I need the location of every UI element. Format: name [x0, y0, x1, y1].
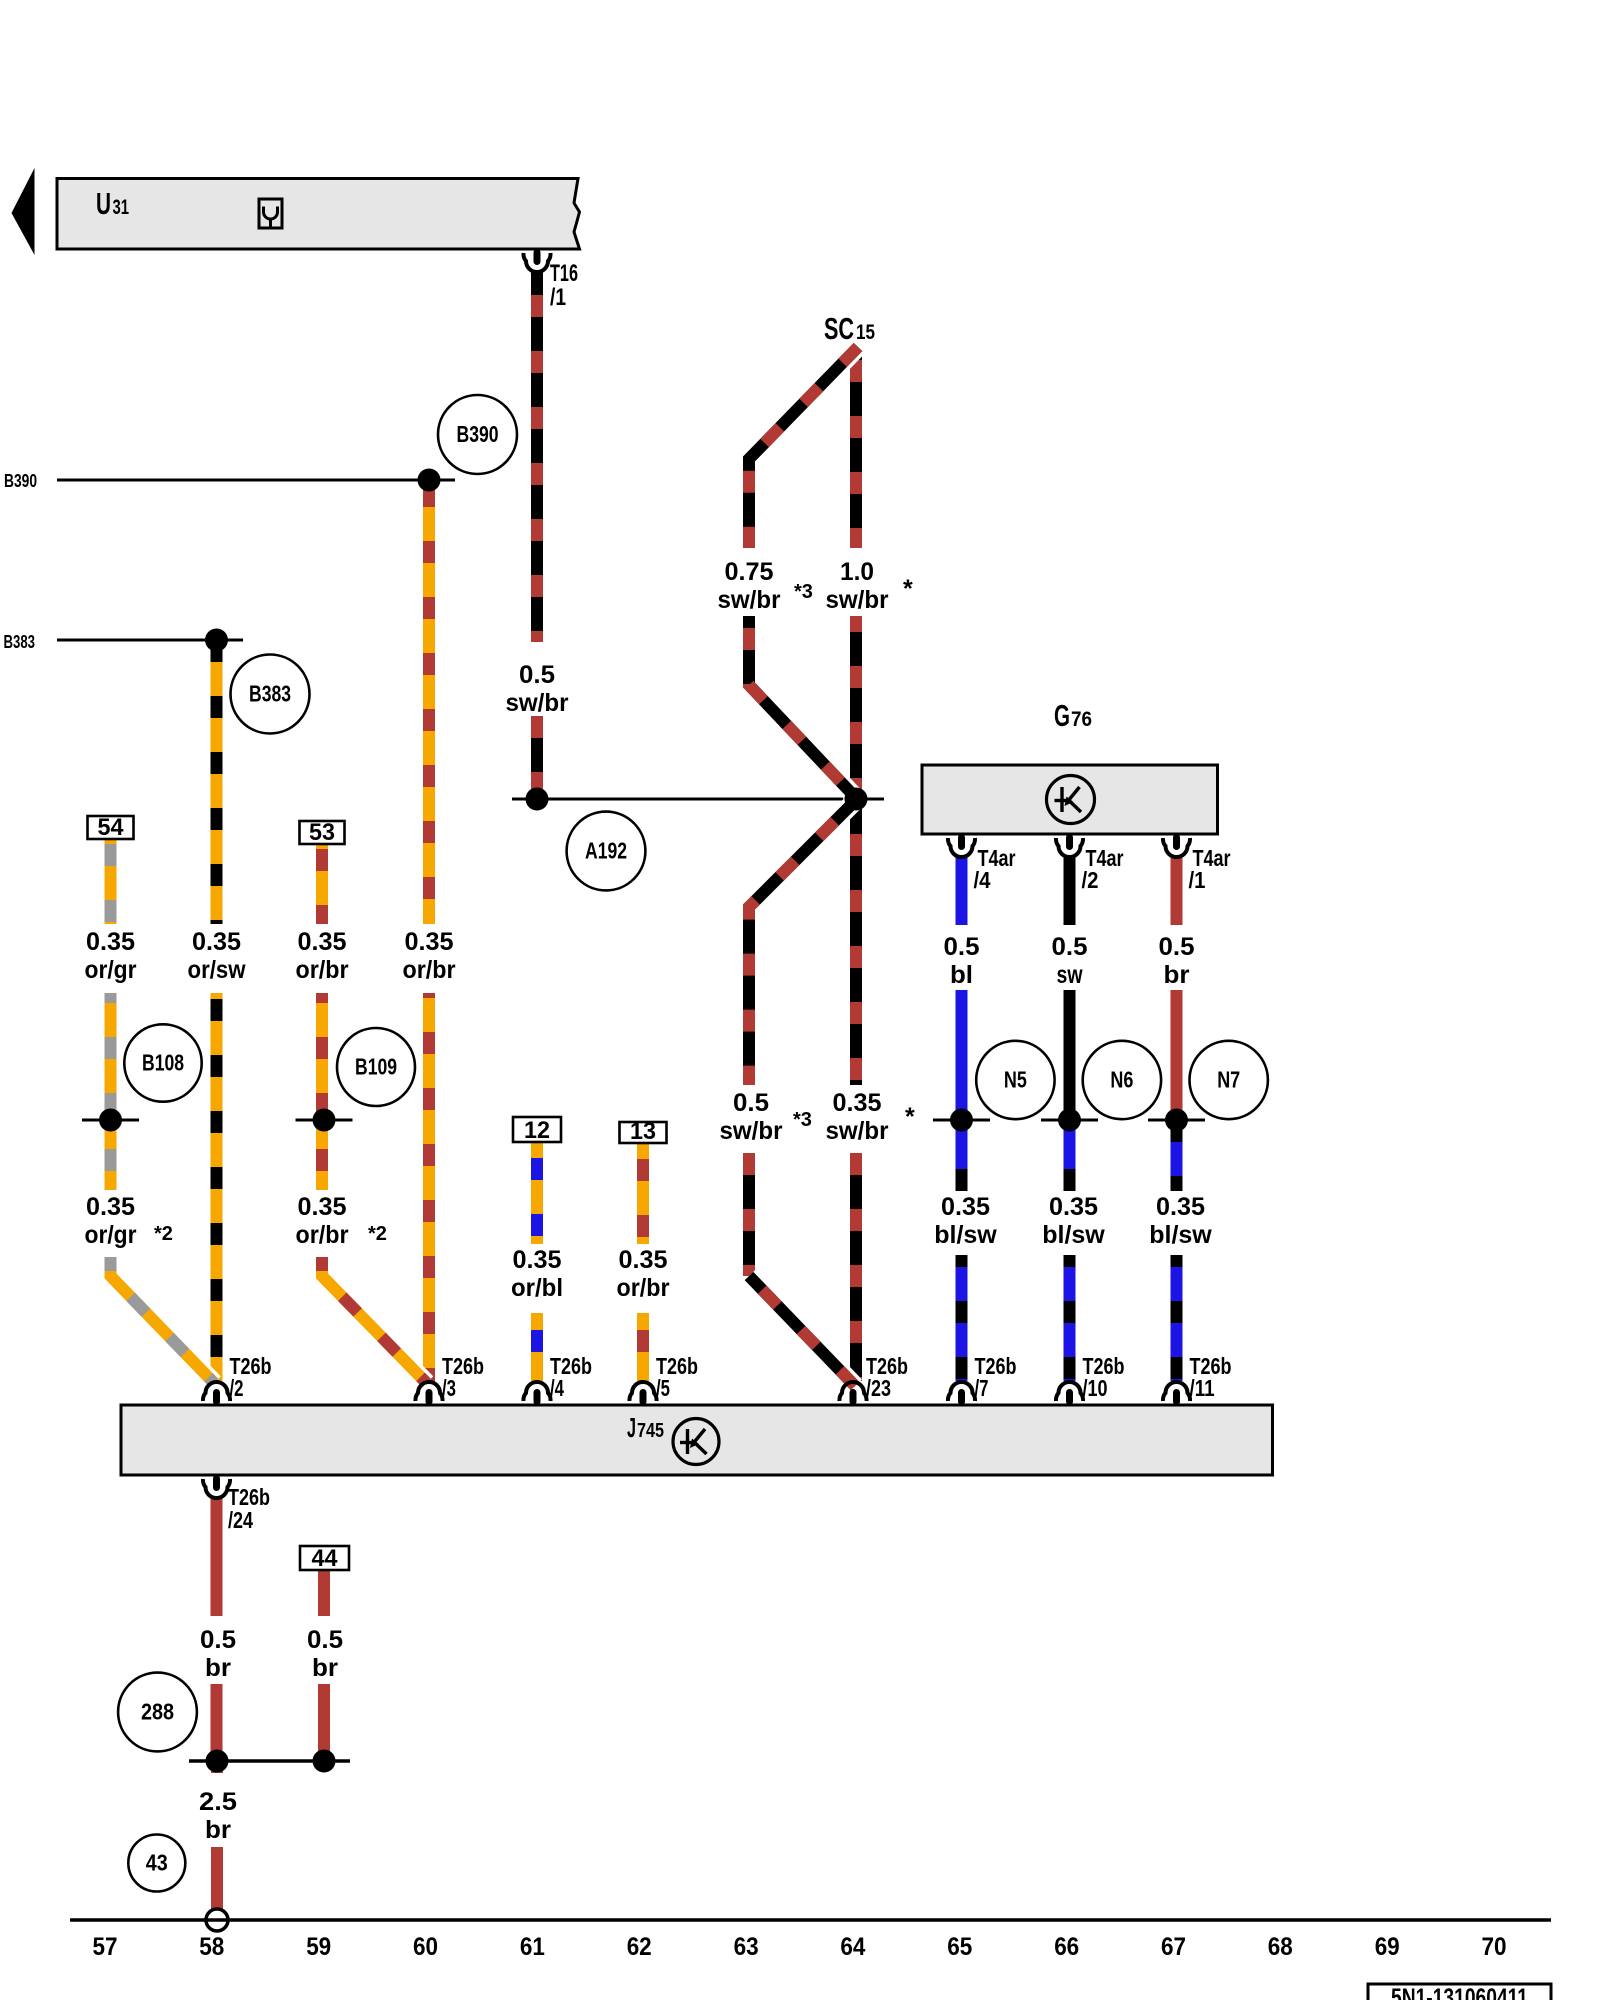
- pin label T26b/11: [1190, 1353, 1232, 1401]
- svg-text:0.5: 0.5: [944, 933, 980, 961]
- node B390 leader line: [57, 479, 455, 482]
- value label 0.75 sw/br: [718, 558, 781, 614]
- junction dot SC15 node: [845, 788, 868, 811]
- wire 0.35 bl/sw below splice N6: [1064, 1120, 1076, 1381]
- ground terminal 43 (open circle): [206, 1909, 228, 1931]
- connector T16/1 at U31: [523, 249, 550, 272]
- svg-text:N7: N7: [1217, 1067, 1240, 1093]
- svg-text:/11: /11: [1190, 1375, 1215, 1401]
- label B390 (left margin): [4, 471, 37, 491]
- value label 2.5 br (ground wire): [199, 1788, 237, 1844]
- svg-text:br: br: [1164, 961, 1190, 989]
- reference circle N7: [1190, 1041, 1268, 1119]
- svg-text:62: 62: [627, 1933, 652, 1961]
- svg-text:0.5: 0.5: [1052, 933, 1088, 961]
- svg-text:or/br: or/br: [617, 1274, 670, 1302]
- svg-text:br: br: [205, 1816, 231, 1844]
- ground bus line 288: [189, 1759, 350, 1763]
- svg-text:or/sw: or/sw: [188, 956, 246, 984]
- svg-text:/2: /2: [230, 1375, 244, 1401]
- svg-text:/4: /4: [974, 867, 991, 893]
- connector T26b/11 at J745: [1163, 1382, 1190, 1405]
- value label 0.5 br (T26b/24 wire): [200, 1626, 236, 1682]
- svg-text:1.0: 1.0: [840, 558, 874, 586]
- wire 0.35 or/gr from terminal 54: [105, 839, 117, 1190]
- svg-text:53: 53: [309, 819, 335, 846]
- wire 0.5 sw/br out of A192 junction: [749, 800, 856, 1085]
- svg-text:bl: bl: [950, 961, 973, 989]
- svg-text:68: 68: [1268, 1933, 1293, 1961]
- svg-text:T16: T16: [550, 260, 578, 287]
- svg-text:B109: B109: [355, 1054, 397, 1080]
- off-page arrow (left): [12, 168, 35, 255]
- svg-text:or/gr: or/gr: [85, 956, 137, 984]
- svg-text:/2: /2: [1082, 867, 1099, 893]
- svg-text:64: 64: [840, 1933, 865, 1961]
- value label 0.35 or/bl (12): [511, 1246, 563, 1302]
- svg-text:0.35: 0.35: [298, 1193, 347, 1221]
- qualifier *3 upper: [794, 581, 813, 603]
- svg-text:0.35: 0.35: [86, 928, 135, 956]
- label B383 (left margin): [4, 632, 36, 652]
- pin label T26b/3: [442, 1353, 484, 1401]
- value label 0.35 sw/br (mid): [826, 1089, 889, 1145]
- wire 0.35 or/br from terminal 53: [316, 844, 328, 1190]
- value label 0.35 or/br *2: [296, 1193, 349, 1249]
- connector icon in U31: [259, 199, 282, 228]
- label J745: [627, 1412, 664, 1443]
- splice B109 dot with tick: [296, 1109, 353, 1132]
- svg-text:288: 288: [141, 1699, 174, 1725]
- svg-text:B108: B108: [142, 1050, 184, 1076]
- terminal box 13: [620, 1118, 667, 1145]
- wire 0.35 sw/br vertical above T26b/23: [743, 1153, 755, 1276]
- label SC15: [824, 311, 875, 346]
- splice N7 dot with tick: [1148, 1109, 1205, 1132]
- connector T26b/23 at J745: [839, 1382, 866, 1405]
- svg-text:or/bl: or/bl: [511, 1274, 563, 1302]
- connector T26b/2 at J745: [203, 1382, 230, 1405]
- svg-text:12: 12: [524, 1117, 550, 1144]
- splice N6 dot with tick: [1041, 1109, 1098, 1132]
- junction dot B390: [418, 469, 441, 492]
- reference circle B383: [231, 655, 310, 734]
- svg-text:57: 57: [93, 1933, 118, 1961]
- pin label T26b/23: [866, 1353, 908, 1401]
- svg-text:54: 54: [98, 814, 125, 841]
- svg-text:0.75: 0.75: [725, 558, 774, 586]
- svg-text:*: *: [903, 575, 913, 603]
- connector T26b/5 at J745: [629, 1382, 656, 1405]
- svg-text:br: br: [312, 1654, 338, 1682]
- wire 0.5 bl from G76 T4ar/4: [956, 856, 968, 1120]
- value label 0.35 bl/sw (N7): [1149, 1193, 1212, 1249]
- wire 0.35 or/gr diagonal to T26b/2: [111, 1257, 215, 1383]
- diagram number box 5N1-131060411: [1368, 1984, 1551, 2000]
- svg-text:76: 76: [1071, 708, 1092, 731]
- svg-text:31: 31: [113, 196, 130, 219]
- svg-text:/4: /4: [550, 1375, 564, 1401]
- qualifier * upper: [903, 575, 913, 603]
- wire 0.5 br from terminal 44: [318, 1570, 330, 1755]
- node B383 leader line: [57, 639, 243, 642]
- wire 0.5 sw from G76 T4ar/2: [1064, 856, 1076, 1120]
- connector T26b/3 at J745: [415, 1382, 442, 1405]
- value label 0.35 or/br (B390): [403, 928, 456, 984]
- svg-text:*: *: [905, 1103, 915, 1131]
- svg-text:44: 44: [312, 1545, 339, 1572]
- connector T26b/4 at J745: [523, 1382, 550, 1405]
- svg-text:sw/br: sw/br: [506, 689, 569, 717]
- svg-text:/24: /24: [228, 1507, 253, 1533]
- svg-text:0.35: 0.35: [1049, 1193, 1098, 1221]
- svg-text:sw/br: sw/br: [826, 1117, 889, 1145]
- svg-text:bl/sw: bl/sw: [934, 1221, 997, 1249]
- svg-text:66: 66: [1054, 1933, 1079, 1961]
- current track numbers 57-70: [93, 1933, 1507, 1961]
- svg-text:N6: N6: [1110, 1067, 1133, 1093]
- svg-text:B390: B390: [4, 471, 37, 491]
- qualifier *3 mid: [793, 1109, 812, 1131]
- svg-text:B383: B383: [249, 681, 291, 707]
- value label 0.5 sw: [1052, 933, 1088, 989]
- node A192 horizontal line: [512, 798, 884, 801]
- svg-text:0.35: 0.35: [941, 1193, 990, 1221]
- qualifier * mid: [905, 1103, 915, 1131]
- svg-text:61: 61: [520, 1933, 545, 1961]
- wire 0.35 bl/sw below splice N7: [1171, 1120, 1183, 1381]
- pin label T26b/2: [230, 1353, 272, 1401]
- component J745 box (control unit cornering lamp): [121, 1405, 1273, 1475]
- svg-text:br: br: [205, 1654, 231, 1682]
- connector T26b/7 at J745: [948, 1382, 975, 1405]
- control unit icon in J745: [673, 1419, 719, 1465]
- reference circle 43: [128, 1835, 185, 1892]
- value label 0.35 bl/sw (N6): [1042, 1193, 1105, 1249]
- svg-text:0.35: 0.35: [513, 1246, 562, 1274]
- value label 0.5 br (44 wire): [307, 1626, 343, 1682]
- wire 0.35 bl/sw below splice N5: [956, 1120, 968, 1381]
- wire 0.35 or/bl from terminal 12: [531, 1142, 543, 1381]
- svg-text:43: 43: [146, 1850, 168, 1876]
- terminal box 44: [300, 1545, 349, 1572]
- svg-text:/23: /23: [866, 1375, 891, 1401]
- wire 0.35 or/br from terminal 13: [637, 1143, 649, 1381]
- ground bus dot left: [206, 1750, 229, 1773]
- svg-text:bl/sw: bl/sw: [1042, 1221, 1105, 1249]
- sensor icon in G76: [1047, 776, 1095, 824]
- svg-text:sw/br: sw/br: [720, 1117, 783, 1145]
- terminal box 54: [88, 814, 134, 841]
- pin label T26b/24: [228, 1484, 270, 1533]
- svg-text:or/br: or/br: [296, 956, 349, 984]
- wire 0.75 sw/br SC15 left branch upper: [749, 347, 858, 548]
- svg-text:SC: SC: [824, 311, 854, 346]
- svg-text:bl/sw: bl/sw: [1149, 1221, 1212, 1249]
- svg-text:745: 745: [637, 1420, 664, 1442]
- value label 0.5 sw/br (T16 wire): [506, 661, 569, 717]
- svg-text:/1: /1: [550, 284, 566, 311]
- value label 0.35 or/br (13): [617, 1246, 670, 1302]
- svg-text:65: 65: [947, 1933, 972, 1961]
- value label 1.0 sw/br: [826, 558, 889, 614]
- reference circle B109: [337, 1028, 415, 1106]
- svg-text:0.35: 0.35: [298, 928, 347, 956]
- svg-text:0.35: 0.35: [833, 1089, 882, 1117]
- wire 1.0 sw/br splice SC15 right branch: [850, 353, 862, 1381]
- svg-text:0.5: 0.5: [200, 1626, 236, 1654]
- wire 0.35 or/sw from B383 junction: [211, 640, 223, 1381]
- svg-text:*3: *3: [794, 581, 813, 603]
- label G76: [1054, 698, 1092, 733]
- qualifier *2 right: [368, 1223, 387, 1245]
- component G76 box (sensor): [922, 765, 1218, 834]
- current track axis line: [70, 1918, 1551, 1922]
- svg-text:0.5: 0.5: [307, 1626, 343, 1654]
- connector T4ar/1 at G76: [1163, 834, 1190, 857]
- pin label T26b/7: [975, 1353, 1017, 1401]
- svg-text:B390: B390: [457, 421, 499, 447]
- svg-text:N5: N5: [1004, 1067, 1027, 1093]
- wire 0.5 br from G76 T4ar/1: [1171, 856, 1183, 1120]
- wire 0.35 or/br from B390 junction: [423, 480, 435, 1383]
- terminal box 53: [300, 819, 345, 846]
- junction dot B383: [205, 629, 228, 652]
- terminal box 12: [513, 1117, 561, 1144]
- wire 0.35 sw/br diagonal to T26b/23: [749, 1276, 855, 1386]
- svg-text:0.5: 0.5: [519, 661, 555, 689]
- svg-text:*2: *2: [368, 1223, 387, 1245]
- ground bus dot right: [313, 1750, 336, 1773]
- svg-text:/3: /3: [442, 1375, 456, 1401]
- svg-text:69: 69: [1375, 1933, 1400, 1961]
- svg-text:*3: *3: [793, 1109, 812, 1131]
- qualifier *2 left: [154, 1223, 173, 1245]
- component U31 box (control unit, torn right edge): [57, 179, 580, 250]
- value label 0.5 bl: [944, 933, 980, 989]
- svg-text:U: U: [96, 186, 111, 221]
- junction dot A192: [526, 788, 549, 811]
- svg-text:/5: /5: [656, 1375, 670, 1401]
- wire 2.5 br to ground 43: [211, 1761, 223, 1909]
- reference circle 288: [118, 1673, 197, 1752]
- svg-text:sw/br: sw/br: [718, 586, 781, 614]
- pin label T26b/4: [550, 1353, 592, 1401]
- svg-text:67: 67: [1161, 1933, 1186, 1961]
- value label 0.35 bl/sw (N5): [934, 1193, 997, 1249]
- svg-text:0.35: 0.35: [619, 1246, 668, 1274]
- reference circle B390: [438, 395, 517, 474]
- reference circle A192: [567, 812, 646, 891]
- value label 0.35 or/br (53): [296, 928, 349, 984]
- svg-text:0.35: 0.35: [192, 928, 241, 956]
- pin label T4ar/2: [1082, 845, 1124, 893]
- pin label T4ar/1: [1189, 845, 1231, 893]
- connector T4ar/4 at G76: [948, 834, 975, 857]
- connector T26b/10 at J745: [1056, 1382, 1083, 1405]
- connector T4ar/2 at G76: [1056, 834, 1083, 857]
- pin label T16/1: [550, 260, 578, 311]
- svg-text:/10: /10: [1083, 1375, 1108, 1401]
- svg-text:or/br: or/br: [296, 1221, 349, 1249]
- pin label T26b/10: [1083, 1353, 1125, 1401]
- svg-text:60: 60: [413, 1933, 438, 1961]
- svg-text:/1: /1: [1189, 867, 1206, 893]
- value label 0.5 br (T4ar/1): [1159, 933, 1195, 989]
- svg-text:59: 59: [306, 1933, 331, 1961]
- svg-text:*2: *2: [154, 1223, 173, 1245]
- svg-text:B383: B383: [4, 632, 36, 652]
- svg-text:0.35: 0.35: [405, 928, 454, 956]
- svg-text:sw: sw: [1057, 961, 1083, 989]
- svg-text:or/br: or/br: [403, 956, 456, 984]
- svg-text:or/gr: or/gr: [85, 1221, 137, 1249]
- wire 0.35 or/br diagonal to T26b/3: [322, 1257, 427, 1383]
- svg-text:2.5: 2.5: [199, 1788, 237, 1816]
- wire 0.5 br from J745 T26b/24: [211, 1497, 223, 1755]
- pin label T4ar/4: [974, 845, 1016, 893]
- svg-text:5N1-131060411: 5N1-131060411: [1391, 1984, 1528, 2000]
- svg-text:0.5: 0.5: [733, 1089, 769, 1117]
- svg-text:63: 63: [734, 1933, 759, 1961]
- wire 0.5 sw/br from U31 T16/1: [531, 272, 543, 789]
- splice N5 dot with tick: [933, 1109, 990, 1132]
- value label 0.35 or/sw: [188, 928, 246, 984]
- svg-text:15: 15: [856, 321, 875, 344]
- value label 0.35 or/gr *2: [85, 1193, 137, 1249]
- svg-text:G: G: [1054, 698, 1070, 733]
- svg-text:13: 13: [630, 1118, 656, 1145]
- svg-text:0.35: 0.35: [1156, 1193, 1205, 1221]
- svg-text:J: J: [627, 1412, 636, 1443]
- svg-text:70: 70: [1482, 1933, 1507, 1961]
- wire 0.75 sw/br into A192 junction: [749, 616, 856, 798]
- svg-text:sw/br: sw/br: [826, 586, 889, 614]
- pin label T26b/5: [656, 1353, 698, 1401]
- reference circle N6: [1083, 1041, 1161, 1119]
- connector T26b/24 at J745 bottom: [203, 1475, 230, 1498]
- svg-text:0.35: 0.35: [86, 1193, 135, 1221]
- label U31: [96, 186, 129, 221]
- splice B108 dot with tick: [82, 1109, 139, 1132]
- reference circle N5: [976, 1041, 1054, 1119]
- value label 0.5 sw/br (mid): [720, 1089, 783, 1145]
- svg-text:A192: A192: [585, 838, 627, 864]
- svg-text:58: 58: [199, 1933, 224, 1961]
- value label 0.35 or/gr: [85, 928, 137, 984]
- reference circle B108: [124, 1024, 201, 1101]
- svg-text:0.5: 0.5: [1159, 933, 1195, 961]
- svg-text:/7: /7: [975, 1375, 989, 1401]
